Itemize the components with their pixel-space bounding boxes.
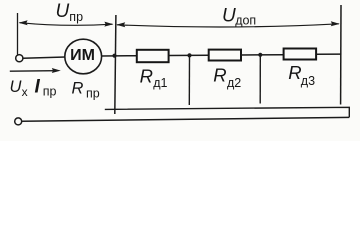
svg-text:пр: пр — [69, 10, 83, 24]
wire terminal to meter — [23, 57, 66, 58]
dimension line U_dop — [117, 24, 339, 27]
svg-text:R: R — [140, 66, 153, 87]
label R_pr — [72, 80, 100, 101]
svg-text:U: U — [56, 1, 70, 22]
resistor Rd1 — [137, 50, 169, 62]
svg-text:U: U — [10, 78, 22, 96]
dimension line U_pr — [20, 23, 113, 26]
svg-text:д1: д1 — [153, 76, 167, 90]
svg-text:ИМ: ИМ — [70, 47, 95, 64]
dimension tick right / right side wire — [340, 5, 342, 105]
node junction 2 — [187, 53, 191, 57]
tap wire from junction 2 — [188, 55, 190, 105]
bottom bus box (open left) — [105, 107, 349, 117]
terminal (input bottom) — [15, 118, 22, 125]
tap wire from junction 3 — [259, 55, 261, 104]
wire R1 to R2 — [169, 54, 209, 56]
svg-text:R: R — [213, 64, 226, 85]
svg-text:пр: пр — [86, 87, 100, 101]
arrowhead right of U_dop — [331, 21, 340, 26]
label U_pr — [56, 1, 84, 24]
wire R3 to right vertical — [316, 53, 341, 55]
node junction 3 — [258, 53, 262, 57]
arrowhead right of U_pr — [104, 22, 113, 27]
label I_pr — [35, 77, 57, 99]
label U_x — [10, 78, 28, 99]
label R_d3 — [288, 62, 315, 88]
dimension tick middle / tap wire — [115, 15, 116, 114]
terminal (input top) — [16, 55, 23, 62]
wire R2 to R3 — [241, 54, 284, 56]
resistor Rd2 — [209, 50, 241, 61]
paper background — [0, 0, 360, 141]
op meter circle IM — [65, 39, 102, 74]
label U_dop — [222, 5, 256, 27]
svg-text:д2: д2 — [227, 76, 241, 90]
svg-text:R: R — [288, 62, 301, 83]
bottom return wire — [22, 117, 350, 121]
svg-text:I: I — [35, 77, 41, 98]
current arrow I_pr — [10, 70, 56, 73]
node junction 1 — [112, 54, 116, 58]
label R_d2 — [213, 64, 241, 90]
svg-text:доп: доп — [235, 14, 256, 28]
svg-text:пр: пр — [43, 84, 57, 98]
arrowhead left of U_dop — [116, 22, 125, 27]
svg-text:U: U — [222, 5, 236, 26]
wire meter to R1 — [102, 55, 137, 57]
svg-text:R: R — [72, 80, 84, 98]
arrowhead left of U_pr — [19, 20, 28, 25]
dimension tick left — [17, 13, 19, 55]
label R_d1 — [140, 66, 168, 90]
svg-text:д3: д3 — [301, 74, 315, 88]
resistor Rd3 — [284, 49, 317, 60]
svg-text:x: x — [22, 85, 28, 99]
